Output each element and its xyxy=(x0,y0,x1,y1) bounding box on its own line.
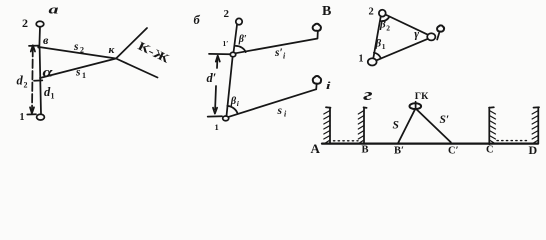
point 1' circle xyxy=(230,52,235,57)
svg-text:i: i xyxy=(237,99,240,108)
svg-text:б: б xyxy=(194,13,201,27)
node v junction dot xyxy=(37,46,40,49)
wire 2 to 1' xyxy=(234,25,237,52)
svg-text:2: 2 xyxy=(386,24,390,33)
arc beta i xyxy=(227,106,237,113)
svg-text:к: к xyxy=(109,44,115,56)
line S' xyxy=(416,109,451,142)
line s'i xyxy=(236,39,317,54)
line s2 xyxy=(39,47,116,59)
arc beta1 xyxy=(374,53,381,59)
svg-text:d′: d′ xyxy=(207,71,217,85)
tick through 1' xyxy=(209,53,230,55)
svg-text:а: а xyxy=(49,2,60,17)
point 2 circle (fig v) xyxy=(379,10,386,17)
svg-text:i: i xyxy=(326,80,332,92)
line S xyxy=(398,109,415,143)
wall at D xyxy=(534,107,540,143)
wire stem from point 2 to node v xyxy=(38,27,41,46)
svg-text:S: S xyxy=(393,120,399,132)
point 2 circle (fig b) xyxy=(236,18,242,24)
svg-text:1: 1 xyxy=(82,71,86,80)
d2 arrow down xyxy=(30,107,34,113)
svg-text:1: 1 xyxy=(215,122,219,132)
svg-text:s: s xyxy=(75,67,81,79)
svg-text:D: D xyxy=(529,143,538,157)
svg-text:2: 2 xyxy=(369,7,374,18)
arc beta' xyxy=(236,46,246,52)
svg-text:1: 1 xyxy=(382,42,386,51)
point 1 circle (fig a) xyxy=(37,114,45,120)
svg-text:В: В xyxy=(362,145,369,156)
triangle side 1-C xyxy=(377,39,428,60)
tick d1 top xyxy=(34,79,42,81)
svg-text:β: β xyxy=(230,96,237,107)
svg-text:β′: β′ xyxy=(238,34,247,45)
baseline A-D xyxy=(322,143,538,145)
arc beta2 xyxy=(381,17,390,21)
bottom tick (fig a) xyxy=(27,113,36,115)
svg-text:В: В xyxy=(322,4,331,19)
dimension line d2 (dashed) xyxy=(31,48,34,111)
dimension d' lower shaft and arrow xyxy=(214,86,217,110)
dimension d' upper arrow xyxy=(216,56,220,62)
svg-text:ГК: ГК xyxy=(415,92,429,102)
bottom tick (fig b) xyxy=(208,115,222,117)
svg-text:2: 2 xyxy=(80,46,84,55)
svg-text:в: в xyxy=(43,33,49,47)
point 1 circle (fig v) xyxy=(368,58,377,65)
svg-text:S′: S′ xyxy=(440,114,450,126)
svg-text:С: С xyxy=(486,145,494,156)
alignment ray lower-right xyxy=(116,59,158,78)
line si (fig b) xyxy=(229,89,316,117)
point 1 circle (fig b) xyxy=(223,116,229,121)
svg-text:1′: 1′ xyxy=(223,39,229,48)
label K-Zh (rotated) xyxy=(136,39,172,66)
wall near A hatching xyxy=(324,111,330,144)
point C circle (fig v) xyxy=(427,33,435,40)
signal point (lollipop) lower xyxy=(315,84,317,89)
svg-text:s′: s′ xyxy=(274,47,283,59)
svg-text:1: 1 xyxy=(20,112,25,123)
theodolite symbol xyxy=(410,103,422,109)
triangle side 2-C xyxy=(385,15,428,35)
svg-text:2: 2 xyxy=(24,81,28,90)
alignment ray upper-right xyxy=(116,28,147,59)
svg-text:α: α xyxy=(43,65,54,80)
dotted segment A-B xyxy=(334,140,359,142)
d2 top tick xyxy=(29,45,39,47)
signal point (lollipop) upper xyxy=(317,31,319,38)
svg-text:i: i xyxy=(284,110,287,119)
svg-text:2: 2 xyxy=(224,8,230,20)
svg-text:2: 2 xyxy=(22,16,28,30)
wire 1' down to 1 xyxy=(227,57,233,116)
point 2 circle (fig a) xyxy=(36,21,44,27)
svg-text:s: s xyxy=(277,105,283,117)
svg-text:s: s xyxy=(73,41,79,53)
triangle side 2-1 xyxy=(373,16,381,58)
svg-text:К-Ж: К-Ж xyxy=(136,39,172,66)
svg-text:г: г xyxy=(363,85,373,104)
wall at C hatching xyxy=(489,111,495,144)
svg-text:А: А xyxy=(311,141,321,156)
signal point (lollipop) at C xyxy=(437,33,439,40)
svg-text:β: β xyxy=(375,38,382,50)
wall at B hatching xyxy=(358,111,364,144)
svg-text:1: 1 xyxy=(359,54,364,65)
svg-text:d: d xyxy=(17,74,24,88)
svg-text:i: i xyxy=(283,52,286,61)
svg-text:1: 1 xyxy=(51,92,55,101)
svg-text:γ: γ xyxy=(414,29,419,41)
svg-text:В′: В′ xyxy=(394,146,404,157)
wall at B xyxy=(364,107,367,143)
line s1 xyxy=(40,59,116,79)
d2 arrow up xyxy=(31,45,35,51)
dotted segment C-D xyxy=(497,140,527,142)
svg-text:С′: С′ xyxy=(448,146,459,157)
wall at C xyxy=(489,107,494,144)
main vertical line 1-v xyxy=(40,47,41,114)
wall at D hatching xyxy=(532,111,538,144)
wall near A xyxy=(326,107,331,144)
